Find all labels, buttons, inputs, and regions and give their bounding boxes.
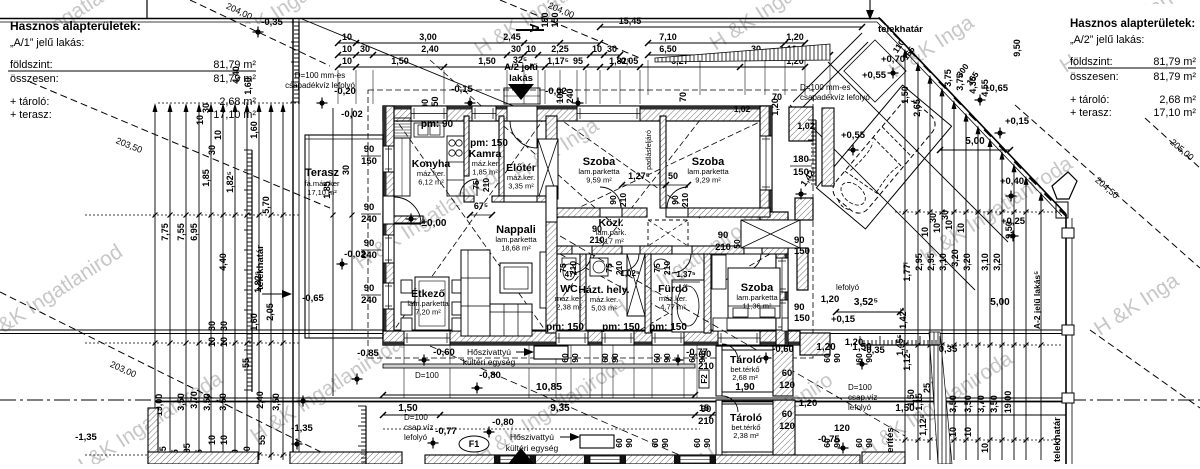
svg-text:60: 60 [600,353,610,363]
parking space outline [816,85,951,229]
svg-text:50: 50 [668,171,678,181]
svg-text:földszint:: földszint: [1070,56,1113,68]
svg-text:9,59 m²: 9,59 m² [586,176,612,185]
svg-text:10: 10 [920,227,930,237]
contour line 205,00 [1145,118,1200,168]
svg-text:+0,15: +0,15 [831,314,856,325]
door terasz->nappali [383,196,421,224]
spot -0,65 [302,293,324,304]
svg-text:-1,35: -1,35 [291,423,313,434]
svg-text:30: 30 [219,321,229,331]
svg-text:10: 10 [207,337,217,347]
Tarolo 2 walls [716,396,795,455]
pm labels [421,119,687,333]
svg-text:240: 240 [565,88,575,103]
svg-text:90: 90 [794,235,805,246]
svg-text:90: 90 [592,224,602,234]
svg-text:2,25: 2,25 [551,44,569,54]
svg-text:7,20 m²: 7,20 m² [415,308,441,317]
storage X box right terrace [741,220,800,248]
svg-text:+ terasz:: + terasz: [10,109,52,121]
svg-text:210: 210 [481,178,491,192]
dim 10,85 [380,381,698,398]
roof overhang dashed outline [368,90,813,358]
svg-text:1,85 m²: 1,85 m² [472,168,498,177]
svg-text:50: 50 [732,239,742,249]
svg-text:30: 30 [341,165,351,175]
labels right annex [790,121,817,200]
svg-text:180: 180 [540,12,550,27]
dim row 1,50 9,35 bottom [380,403,1066,418]
section mark A bottom [508,448,534,464]
opening eloter->nappali [504,196,537,202]
svg-text:3,75: 3,75 [943,69,953,87]
svg-text:210: 210 [680,193,690,207]
door dims wc row [558,261,578,275]
svg-text:-0,35: -0,35 [261,17,283,28]
svg-text:17,10 m²: 17,10 m² [213,109,256,121]
duct with X (spine) [538,139,558,199]
svg-text:csapadékvíz lefolyó: csapadékvíz lefolyó [800,93,870,102]
svg-text:1,42⁵: 1,42⁵ [898,307,908,329]
svg-text:+0,25: +0,25 [1001,216,1026,227]
spot -0,77 [673,347,708,366]
spot levels inside [406,214,447,230]
property boundary right vertical [1066,214,1072,464]
svg-text:6,12 m²: 6,12 m² [418,178,444,187]
svg-text:90: 90 [610,353,620,363]
svg-text:+0,55: +0,55 [841,130,866,141]
svg-text:10: 10 [342,44,352,54]
svg-text:1,20: 1,20 [786,32,804,42]
svg-text:1,20: 1,20 [821,294,840,305]
svg-text:60: 60 [782,368,793,379]
svg-text:pm: 150: pm: 150 [546,322,584,333]
svg-text:Hasznos alapterületek:: Hasznos alapterületek: [1070,18,1195,30]
Tarolo2 door dims [698,404,714,427]
svg-text:90: 90 [364,202,375,213]
window szoba2 right [760,136,772,190]
svg-text:2,95: 2,95 [926,253,936,271]
svg-text:47⁵: 47⁵ [565,270,578,279]
svg-text:70: 70 [772,92,782,102]
svg-text:120: 120 [779,380,795,391]
svg-text:2,38 m²: 2,38 m² [733,431,759,440]
svg-text:10: 10 [219,435,229,445]
svg-text:60: 60 [822,353,832,363]
dimension 15,45 [597,16,865,30]
D=100 mm-es csapadekviz lefolyo note top [285,71,355,90]
svg-text:1,12⁵: 1,12⁵ [918,414,928,436]
kitchen sink counter top [414,123,444,137]
entrance stoop outside [504,88,540,104]
room Szoba3 [736,282,778,311]
svg-text:30: 30 [360,44,370,54]
svg-text:lakás: lakás [509,73,533,84]
Tarolo 1 labels [730,354,762,393]
svg-text:+0,70: +0,70 [881,54,905,65]
tick ruler along road right [860,336,940,345]
wall konyha/kamra [464,116,469,176]
spot -0,60 right of tarolo1 [761,344,794,364]
svg-text:2,95: 2,95 [914,253,924,271]
coffee table [500,263,532,293]
spot -0,15 top [451,84,475,109]
svg-text:90: 90 [794,302,805,313]
dim 1,37 furdo [672,270,700,282]
svg-text:10: 10 [526,44,536,54]
svg-text:telekhatár: telekhatár [878,24,923,35]
property boundary top (telekhatar) [0,19,1066,217]
svg-text:+ terasz:: + terasz: [1070,107,1112,119]
window dim labels right wall [794,235,810,257]
svg-text:Hasznos alapterületek:: Hasznos alapterületek: [10,19,141,33]
svg-text:210: 210 [698,416,714,427]
svg-text:6,95: 6,95 [189,223,199,241]
svg-text:90: 90 [670,195,680,205]
wall kamra/eloter [499,116,504,200]
svg-text:A-2 jelű lakás⁵: A-2 jelű lakás⁵ [1032,271,1042,329]
svg-text:2,68 m²: 2,68 m² [1159,94,1196,106]
svg-text:3,20: 3,20 [962,253,972,271]
svg-text:F1: F1 [469,439,480,449]
svg-text:telekhatár: telekhatár [1052,417,1063,462]
step dims 300/165 [954,61,980,87]
svg-text:30: 30 [928,213,938,223]
room Hazt hely [578,284,629,313]
svg-text:pm: 150: pm: 150 [470,138,508,149]
dim 1,02/45 top right room [734,104,751,114]
svg-text:+ tároló:: + tároló: [1070,94,1109,106]
wall wc/hazt [580,254,586,333]
svg-text:pm: 150: pm: 150 [649,322,687,333]
contour line 204,00 right [500,0,640,58]
svg-text:D=100: D=100 [415,371,439,380]
washbasin furdo [654,259,668,269]
window szoba3 bottom [718,331,760,345]
spot -0,45 left [291,423,313,450]
toilet wc [562,258,576,280]
svg-text:1,20: 1,20 [845,337,864,348]
svg-text:-1,35: -1,35 [75,432,97,443]
svg-text:150: 150 [794,313,810,324]
svg-text:D=100 mm-es: D=100 mm-es [295,71,345,80]
dim 1,02 hazt [620,269,640,278]
svg-text:-0,80: -0,80 [479,370,501,381]
svg-text:-0,75: -0,75 [818,434,840,445]
dimension row 1 (3,00 / 2,45) [335,32,603,46]
tv board [540,252,546,308]
svg-text:1,02: 1,02 [797,121,815,131]
contour line 204,50 [1015,105,1200,268]
svg-text:90: 90 [608,195,618,205]
padlasfeljaro rotated [646,130,653,170]
outer wall right upper [760,106,772,218]
extension lines above house [338,60,830,104]
svg-text:30: 30 [207,321,217,331]
svg-text:Hőszivattyú: Hőszivattyú [510,432,554,442]
door szoba1 [600,187,622,217]
svg-text:10: 10 [342,32,352,42]
svg-text:210: 210 [589,235,604,245]
wall etkezo divider [383,216,423,223]
svg-text:kültéri egység: kültéri egység [463,357,516,367]
120/60 labels between tarolos [779,368,817,432]
svg-text:150: 150 [550,12,560,27]
svg-text:2,68 m²: 2,68 m² [219,96,256,108]
left cluster labels [154,66,281,467]
window konyha top [411,106,447,121]
svg-text:10: 10 [956,223,966,233]
svg-text:1,82⁵: 1,82⁵ [225,171,235,193]
svg-text:7,75: 7,75 [160,223,170,241]
hatched ramp strip [655,44,830,62]
svg-text:90: 90 [832,353,842,363]
right dimension line cluster [895,48,1062,460]
svg-text:90: 90 [570,353,580,363]
svg-text:„A/2” jelű lakás:: „A/2” jelű lakás: [1070,34,1144,46]
svg-text:90: 90 [701,349,712,360]
svg-text:+0,40: +0,40 [1000,176,1024,187]
svg-text:3,50: 3,50 [948,395,958,413]
contour line 203,50 [30,82,330,208]
svg-text:18,68 m²: 18,68 m² [501,244,531,253]
spot -1,35 [75,396,308,444]
hatched slope wedge bottom right [929,332,952,464]
window szoba1 top [577,106,640,121]
drain dashed diagonal 2 [430,346,700,464]
dim 1,27 and 50 szoba1 [619,171,691,188]
svg-text:3,50: 3,50 [271,393,281,411]
A/2 jelu lakas rotated right side [1032,271,1042,329]
svg-text:3,50: 3,50 [989,395,999,413]
text block A/2 top right [1068,18,1196,119]
wall between bedrooms [660,116,666,208]
5,00 dim right [937,136,1013,153]
svg-text:4,77 m²: 4,77 m² [660,303,686,312]
svg-text:150: 150 [361,156,377,167]
windows right wall lower [776,258,788,292]
telekhatar label left with arrow [255,245,292,298]
svg-text:75: 75 [471,180,481,190]
svg-text:180: 180 [793,154,809,165]
svg-text:összesen:: összesen: [10,73,59,85]
heat pump unit 2 [506,432,614,453]
svg-text:1,12⁵: 1,12⁵ [902,349,912,371]
svg-text:+0,65: +0,65 [984,83,1009,94]
svg-text:1,27⁵: 1,27⁵ [628,171,650,181]
60/90 rotated pairs row1 [560,353,874,363]
driveway steps [844,40,906,102]
svg-text:9,35: 9,35 [550,403,570,414]
svg-text:1,15: 1,15 [914,393,924,411]
svg-text:7,55: 7,55 [176,223,186,241]
window kamra top [472,106,496,121]
spine wall [546,116,557,333]
contour line 203,00 [0,292,345,464]
svg-text:-0,02: -0,02 [344,249,366,260]
sofa L-shape [461,250,532,336]
svg-text:81,79 m²: 81,79 m² [1153,56,1196,68]
svg-text:1,85: 1,85 [201,169,211,187]
svg-text:30: 30 [940,210,950,220]
driveway boundary diagonals [790,33,1008,290]
svg-text:3,52⁵: 3,52⁵ [854,297,878,308]
svg-text:120: 120 [834,423,850,434]
room Furdo [658,283,688,312]
svg-text:81,79 m²: 81,79 m² [1153,71,1196,83]
step dims 110/165 [891,38,917,62]
0,35 spot lower right [939,344,958,355]
pillar top right [789,107,813,141]
svg-text:Hőszivattyú: Hőszivattyú [467,347,511,357]
dim 47.5 wc [565,270,578,279]
kamra door dims [471,178,491,192]
heat pump unit 1 [463,346,568,367]
svg-text:2,68 m²: 2,68 m² [732,373,758,382]
svg-text:1,20: 1,20 [799,398,818,409]
white patch under A1 text block [0,24,270,128]
dim 100/240 rotated near entrance [555,88,575,103]
spot -0,60 below house [419,347,455,366]
road edge double line lower with centerline extensions [0,398,1200,402]
svg-text:30: 30 [511,44,521,54]
svg-text:A/2 jelű: A/2 jelű [504,62,538,73]
svg-text:1,50: 1,50 [895,403,915,414]
svg-text:Terasz: Terasz [305,167,340,179]
svg-text:90: 90 [624,438,634,448]
svg-text:90: 90 [864,438,874,448]
svg-text:D=100: D=100 [404,413,428,422]
svg-text:3,50: 3,50 [218,393,228,411]
svg-text:lefolyó: lefolyó [404,433,428,442]
ruler tape top left [291,22,299,104]
room Kamra [469,148,502,177]
svg-text:csap.víz: csap.víz [404,423,433,432]
Tarolo 2 labels [730,412,762,440]
dim 1,20 1,50 mid right [816,342,872,353]
svg-text:0,35: 0,35 [939,344,958,355]
spot -0,80 [472,370,501,394]
svg-text:10,85: 10,85 [536,381,562,393]
0,15 spot lower [831,314,856,325]
svg-text:1,20: 1,20 [816,342,836,353]
svg-text:-0,02: -0,02 [341,109,363,120]
door wc [572,246,592,273]
svg-text:1,17⁵: 1,17⁵ [547,56,569,66]
svg-text:3,00: 3,00 [419,32,437,42]
svg-text:75: 75 [652,263,662,273]
svg-text:210: 210 [715,242,731,253]
kitchen stove [447,136,464,196]
svg-text:15,45: 15,45 [619,16,642,26]
left dimension line cluster [85,103,299,460]
contour line 204,00 left [190,0,330,66]
svg-text:90: 90 [364,283,375,294]
spot -0,80 bottom [484,417,514,438]
svg-text:90: 90 [660,438,670,448]
svg-text:81,79 m²: 81,79 m² [213,73,256,85]
room Nappali [495,224,537,253]
svg-text:1,02: 1,02 [734,104,751,114]
svg-text:1,50: 1,50 [900,86,910,104]
bottom ruler tape left [358,406,366,464]
svg-text:6,50: 6,50 [659,44,677,54]
gate post pentagon [1052,172,1077,218]
text block A/1 top left [8,19,256,121]
kerites (fence) label [885,427,896,458]
bench szoba3 [712,255,726,289]
A/2 jelu lakas label with triangle [504,62,538,100]
svg-text:3,20: 3,20 [992,253,1002,271]
svg-text:60: 60 [687,353,697,363]
svg-text:9,29 m²: 9,29 m² [695,176,721,185]
wall furdo/szoba3 [704,254,711,333]
extension lines below house [404,345,697,398]
svg-text:2,38 m²: 2,38 m² [556,303,582,312]
svg-text:3,50: 3,50 [202,393,212,411]
wall connector right [760,212,788,220]
svg-text:90: 90 [662,353,672,363]
property boundary left vertical (telekhatar) [293,19,299,465]
telekhatar label top right with arrow [866,0,923,35]
F1 ellipse [459,436,489,452]
window dim labels left wall [361,202,381,225]
dim 67.5 [467,201,495,218]
svg-text:-0,77: -0,77 [435,426,457,437]
svg-text:90: 90 [702,438,712,448]
door kamra [460,179,477,196]
vertical ruler tape left [244,150,252,392]
svg-text:17,10 m²: 17,10 m² [307,188,337,197]
svg-text:padlásfeljáró: padlásfeljáró [646,130,653,170]
-0,35 spot bottom left of right cluster [857,345,886,370]
svg-text:10: 10 [963,427,973,437]
dimension row 3 [335,55,643,70]
contour line 204,50 lower [1090,330,1200,408]
svg-text:10: 10 [207,435,217,445]
svg-text:1,50: 1,50 [391,56,409,66]
svg-text:2,05: 2,05 [265,303,275,321]
room Konyha [412,158,451,187]
telekhatar label bottom right [1052,417,1063,462]
svg-text:30: 30 [607,44,617,54]
opening nappali->kozl [546,186,557,222]
90/210 under bedrooms row [589,224,604,245]
door furdo [672,246,692,273]
svg-text:60: 60 [652,353,662,363]
spot -0,35 top [253,17,284,38]
svg-text:1,77ⁱ: 1,77ⁱ [901,262,912,282]
garden wall right vertical [822,108,834,186]
kitchen counter left [394,118,411,196]
duct X bottom row [627,254,645,316]
window left wall 3 [383,283,394,309]
svg-text:összesen:: összesen: [1070,71,1119,83]
svg-text:9,50: 9,50 [1012,39,1022,57]
bathtub [672,280,704,332]
svg-text:210: 210 [618,193,628,207]
room Szoba1 [578,156,620,185]
svg-text:1,37⁵: 1,37⁵ [676,270,696,279]
svg-text:+ tároló:: + tároló: [10,96,49,108]
svg-text:5,03 m²: 5,03 m² [591,304,617,313]
svg-text:100: 100 [555,88,565,103]
right cluster labels [895,39,1022,453]
spot +0,70 [881,54,905,79]
3,52 dim right [833,297,903,315]
svg-text:240: 240 [361,295,377,306]
